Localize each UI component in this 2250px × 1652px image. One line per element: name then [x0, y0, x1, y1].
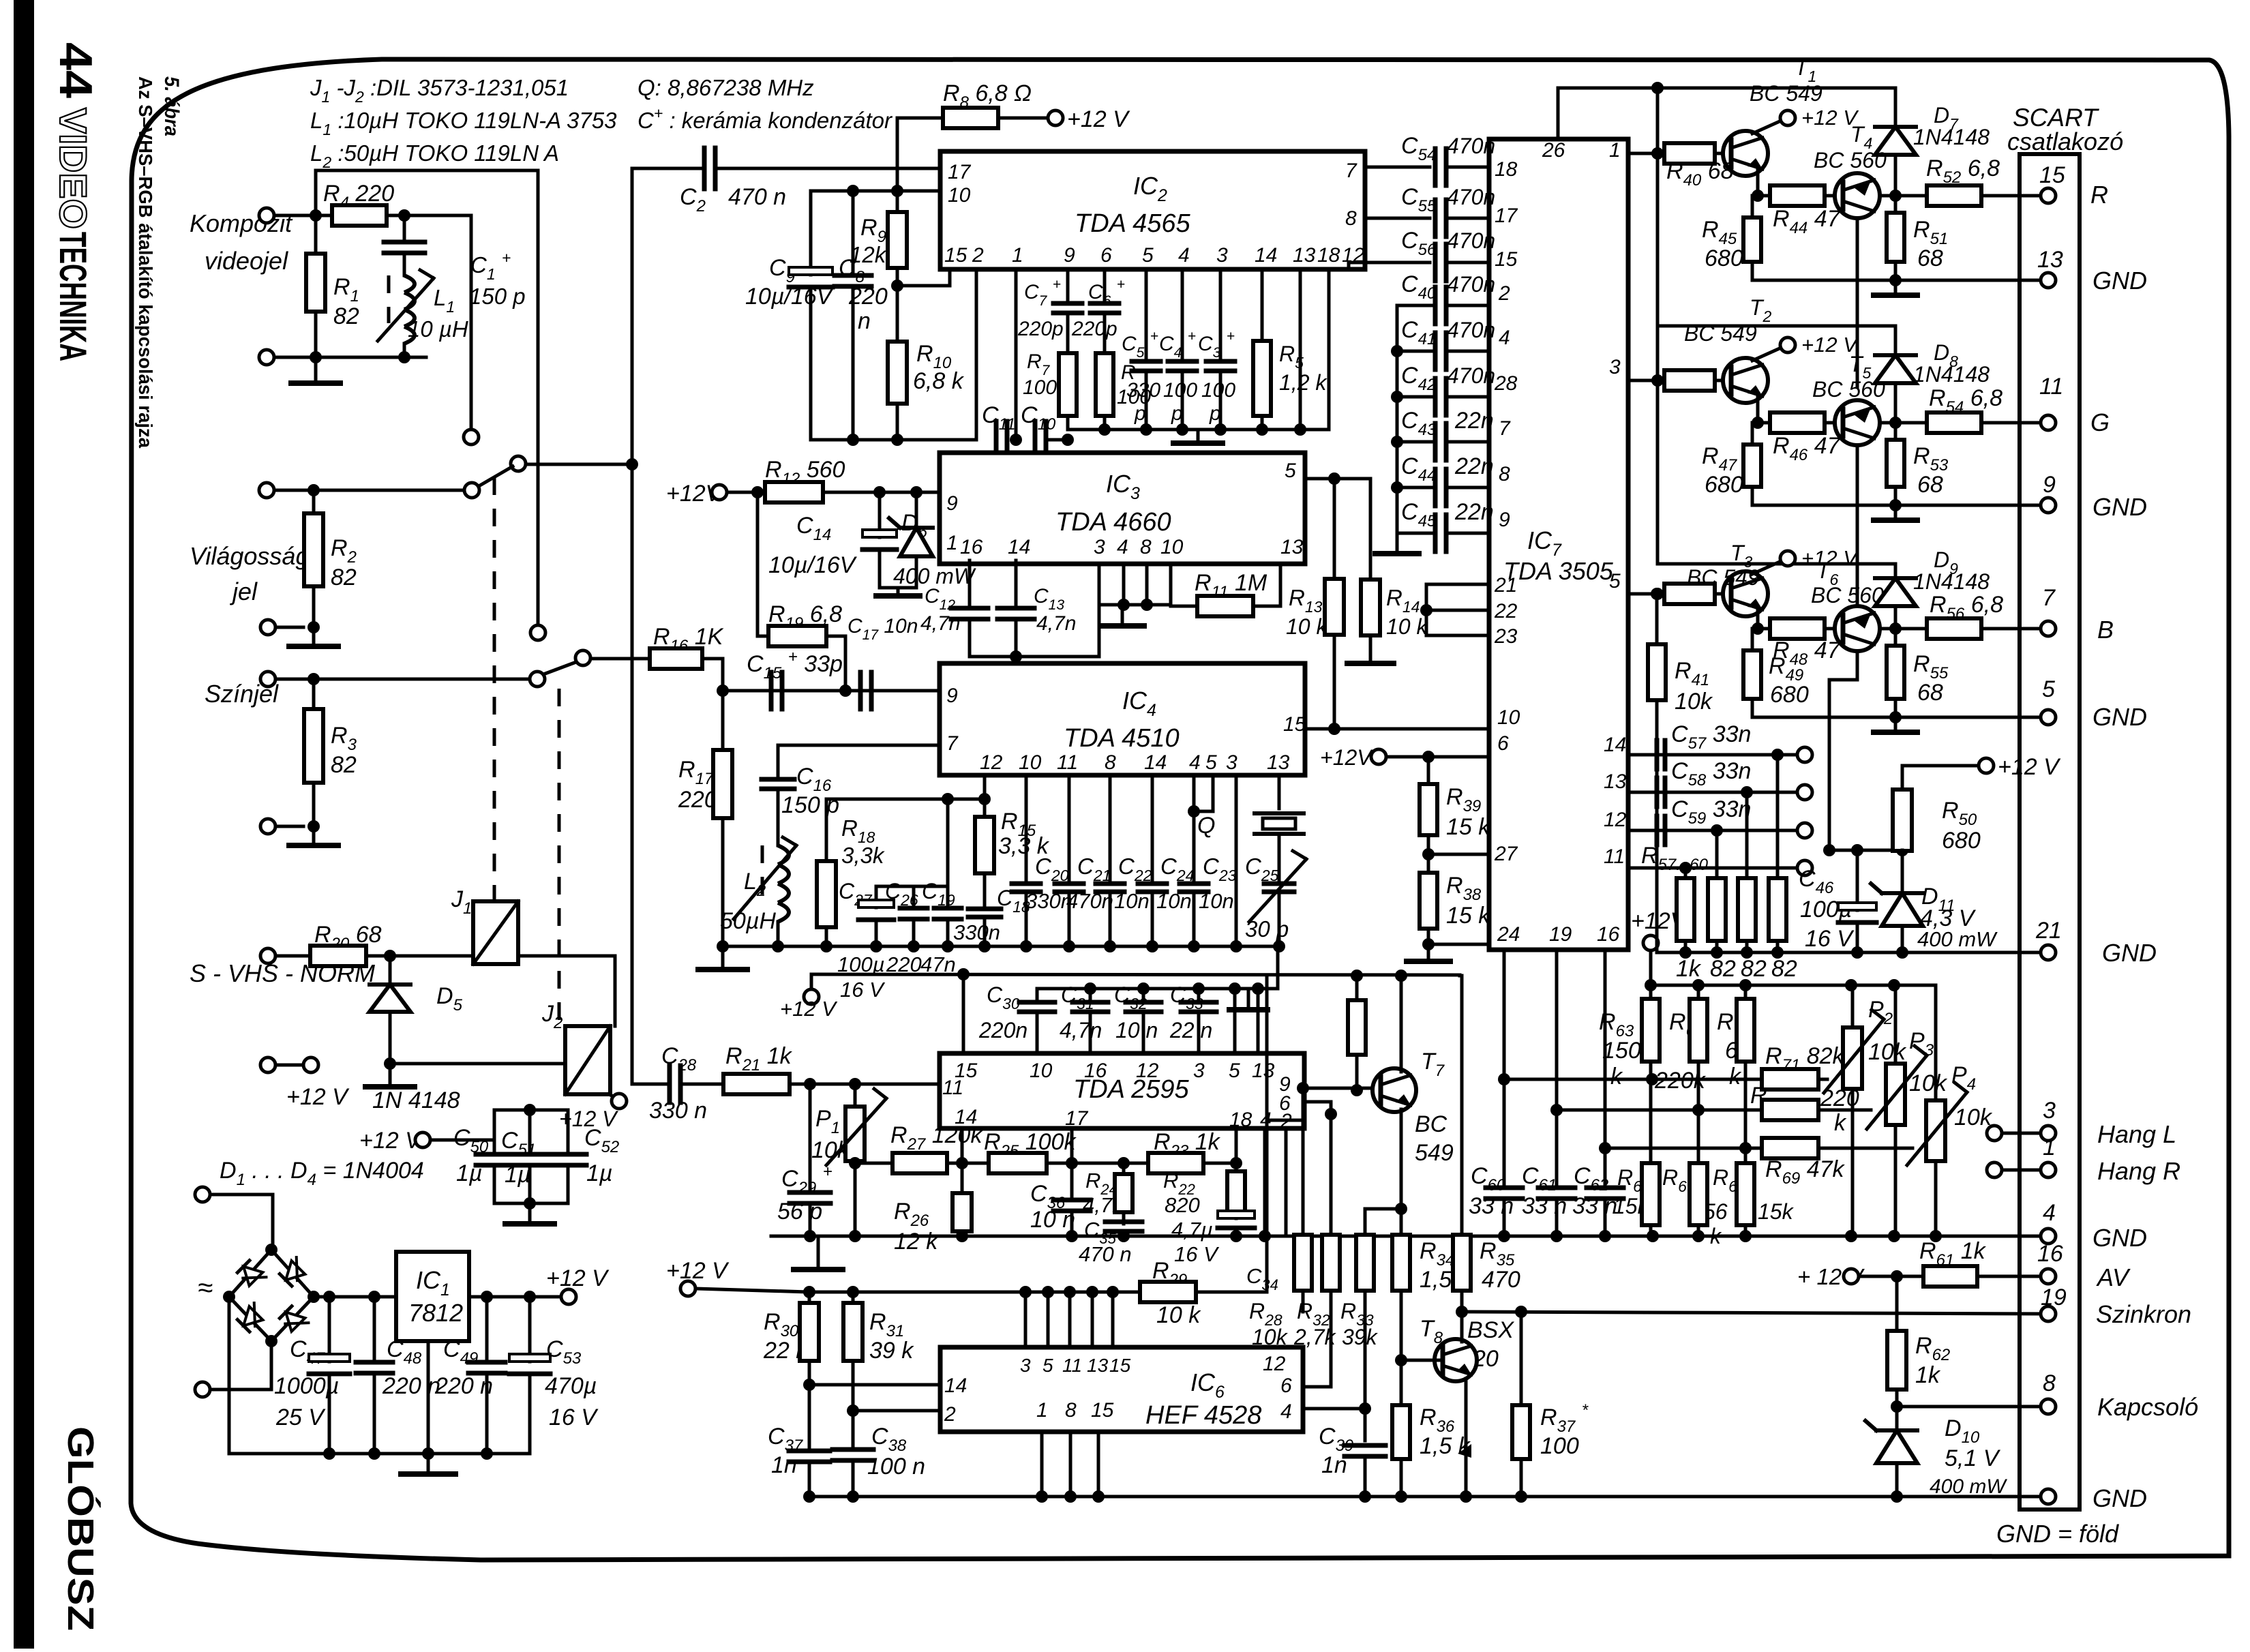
svg-text:GND = föld: GND = föld [1996, 1520, 2119, 1548]
svg-text:22 n: 22 n [1169, 1018, 1212, 1042]
resistor load 68 R55 [1894, 629, 1897, 646]
svg-text:18: 18 [1317, 244, 1340, 267]
wire switch2 to R16 [590, 657, 650, 661]
resistor 47 ohm R46 [1758, 421, 1770, 425]
wire +12V row to IC5 pin15 and T7 [811, 974, 1460, 975]
svg-text:BC 560: BC 560 [1811, 583, 1884, 607]
svg-text:28: 28 [1494, 372, 1518, 395]
svg-text:HEF 4528: HEF 4528 [1145, 1401, 1261, 1430]
wire C50 block bottom [493, 1167, 496, 1203]
wire pin4 stub [1181, 269, 1184, 357]
svg-text:150 p: 150 p [781, 792, 839, 818]
wire C10 to pin9 col [1046, 438, 1068, 442]
wire D5 to J2 [390, 1062, 565, 1066]
node R38 bottom [1422, 938, 1435, 950]
C30-C33 decoupling bus [1037, 987, 1278, 991]
svg-text:1N4148: 1N4148 [1913, 569, 1990, 594]
svg-text:1µ: 1µ [586, 1160, 613, 1186]
terminal composite in top [259, 208, 274, 223]
svg-text:9: 9 [2043, 472, 2056, 498]
svg-text:13: 13 [1280, 536, 1304, 558]
svg-text:5: 5 [1042, 1355, 1053, 1376]
svg-text:17: 17 [1065, 1107, 1089, 1130]
svg-text:100µ: 100µ [837, 952, 885, 976]
wire +12V bus [809, 1291, 1267, 1294]
svg-text:3: 3 [1216, 244, 1228, 267]
transistor T1 BC549 [1723, 131, 1768, 176]
resistor series 6.8 R56 [1895, 627, 1927, 631]
svg-text:15 k: 15 k [1446, 814, 1491, 840]
wire T8 emitter [1465, 1379, 1468, 1497]
wire pin9 stub [1066, 269, 1070, 299]
svg-text:AV: AV [2096, 1263, 2131, 1291]
svg-text:82: 82 [1741, 956, 1767, 982]
svg-text:10 n: 10 n [1115, 1018, 1158, 1042]
wire T8 base [1401, 1359, 1441, 1362]
GLOBUSZ footer [60, 1426, 101, 1631]
wire row14 [1628, 753, 1777, 757]
svg-text:12: 12 [1136, 1060, 1159, 1082]
svg-text:+12V: +12V [1320, 745, 1373, 770]
IC2 box [940, 151, 1365, 269]
svg-text:3: 3 [1020, 1355, 1031, 1376]
resistor emitter 680 R49 [1751, 629, 1754, 650]
svg-text:470 n: 470 n [1079, 1242, 1132, 1266]
svg-text:16: 16 [1597, 923, 1620, 946]
terminal +12V R8 [1048, 110, 1063, 125]
wire R19 to C15 row [844, 636, 847, 691]
svg-text:k: k [1729, 1064, 1742, 1090]
svg-text:220p: 220p [1071, 318, 1117, 340]
resistor T7 base pullup [1355, 976, 1359, 1000]
wire pin14 stub [961, 1128, 964, 1193]
svg-text:k: k [1610, 1064, 1623, 1090]
svg-text:TECHNIKA: TECHNIKA [52, 232, 95, 361]
svg-text:6: 6 [1100, 244, 1112, 267]
wire bottom [303, 356, 426, 359]
svg-text:Kompozit: Kompozit [190, 209, 293, 237]
IC5 TDA2595 box [940, 1053, 1304, 1128]
svg-text:14: 14 [944, 1375, 967, 1397]
wire sync row [1462, 1312, 2047, 1314]
wire Kapcsolo row [1897, 1405, 2041, 1409]
svg-text:1N 4148: 1N 4148 [372, 1087, 460, 1113]
switch blade 1 [475, 466, 513, 488]
svg-text:330: 330 [1126, 379, 1160, 402]
switch contact A2 [530, 625, 545, 640]
svg-text:50µH: 50µH [720, 908, 776, 934]
P network top rail [1651, 984, 1936, 987]
IC1 7812 [396, 1252, 469, 1341]
svg-text:6: 6 [1280, 1375, 1292, 1397]
wire pin24 column [1503, 950, 1506, 1186]
terminal gnd pin 13 [2041, 273, 2056, 288]
transistor T6 BC560 [1835, 606, 1880, 651]
svg-text:10µ/16V: 10µ/16V [768, 552, 858, 578]
wire gnd row stage 2 [1752, 504, 2041, 507]
svg-text:150: 150 [1602, 1038, 1641, 1064]
resistor base ? [1657, 379, 1664, 382]
svg-text:8: 8 [1140, 536, 1152, 558]
svg-text:14: 14 [1144, 751, 1167, 774]
wire R65 column [1697, 1110, 1700, 1163]
svg-text:≈: ≈ [198, 1273, 213, 1303]
svg-text:10: 10 [1160, 536, 1184, 558]
svg-text:4: 4 [1280, 1400, 1292, 1423]
IC7 pins 21 22 23 strap [1426, 583, 1489, 586]
bottom ground rail [807, 1495, 2048, 1499]
wire box edge to A2 [537, 170, 540, 625]
svg-text:680: 680 [1705, 472, 1743, 498]
node composite gnd [310, 351, 322, 363]
node R16 out [717, 685, 729, 697]
wire switch1 out to rail [526, 463, 632, 466]
svg-text:400 mW: 400 mW [1930, 1475, 2007, 1498]
wire pin5 row [1628, 592, 1664, 596]
svg-text:2: 2 [972, 244, 984, 267]
svg-text:1: 1 [1036, 1399, 1048, 1422]
terminal +12V IC5 [810, 974, 813, 989]
wire pin17 stub [1070, 1128, 1074, 1190]
svg-text:68: 68 [1917, 472, 1943, 498]
wire to P1 and pin11 [810, 1083, 940, 1086]
node output 2 [1880, 421, 1927, 425]
svg-text:100 n: 100 n [867, 1454, 925, 1480]
resistor 47 ohm R44 [1758, 194, 1770, 198]
svg-text:470n: 470n [1447, 134, 1495, 158]
svg-text:19: 19 [1549, 923, 1572, 946]
ground supply [427, 1454, 430, 1473]
svg-text:1k: 1k [1915, 1362, 1941, 1388]
svg-text:82: 82 [331, 752, 357, 778]
svg-text:15: 15 [1091, 1399, 1114, 1422]
svg-text:10: 10 [948, 184, 971, 207]
svg-text:BC 560: BC 560 [1814, 148, 1887, 172]
svg-text:100: 100 [1163, 379, 1197, 402]
wire IC2 pin12 row C56 [1349, 262, 1365, 269]
svg-text:220: 220 [886, 952, 922, 976]
svg-text:4,7n: 4,7n [1060, 1018, 1102, 1042]
svg-text:4: 4 [1178, 244, 1190, 267]
wire pin2 row [853, 1409, 940, 1413]
resistor series 6.8 R54 [1895, 421, 1927, 425]
svg-text:Q: 8,867238 MHz: Q: 8,867238 MHz [637, 75, 814, 100]
resistor base ? [1657, 592, 1664, 596]
svg-text:26: 26 [1542, 139, 1565, 162]
svg-text:4,7n: 4,7n [920, 612, 960, 635]
resistor 47 ohm R48 [1758, 627, 1770, 631]
ground R38 [1427, 944, 1430, 960]
svg-text:1: 1 [2043, 1135, 2056, 1160]
svg-text:10: 10 [1019, 751, 1042, 774]
node D5 [384, 950, 396, 962]
svg-text:820: 820 [1165, 1193, 1200, 1217]
diode D7 1N4148 [1894, 88, 1897, 127]
terminal Hang R [1987, 1162, 2002, 1177]
svg-text:27: 27 [1494, 843, 1518, 865]
svg-text:Kapcsoló: Kapcsoló [2097, 1393, 2198, 1421]
terminal AC in top [195, 1187, 210, 1202]
wire pin2 stub [975, 269, 978, 440]
svg-text:8: 8 [1345, 207, 1357, 230]
terminal row14 [1771, 749, 1784, 761]
svg-text:csatlakozó: csatlakozó [2007, 127, 2123, 155]
svg-text:VIDEO: VIDEO [52, 108, 95, 229]
wire base row stage 2 [1628, 379, 1664, 382]
wire R9 to pin15 [897, 269, 950, 286]
terminal gnd pin 9 [2041, 498, 2056, 513]
svg-text:10 k: 10 k [1286, 614, 1328, 639]
dashed link switch1 to J1 [493, 477, 496, 901]
svg-text:9: 9 [946, 685, 958, 707]
svg-text:13: 13 [1087, 1355, 1109, 1376]
switch contact A composite [464, 430, 479, 445]
svg-text:4: 4 [2043, 1200, 2056, 1226]
ground chroma input [312, 826, 316, 844]
wire R62 column [1895, 1276, 1899, 1331]
svg-text:16: 16 [960, 536, 983, 558]
svg-text:Világosság-: Világosság- [190, 542, 317, 570]
wire T1 collector to +12V [1752, 121, 1780, 134]
svg-text:10k: 10k [1909, 1070, 1948, 1096]
svg-text:15: 15 [2039, 162, 2065, 188]
wire pin5 stub [1145, 269, 1148, 357]
svg-text:13: 13 [1252, 1060, 1275, 1082]
svg-text:GND: GND [2102, 939, 2157, 967]
svg-text:549: 549 [1415, 1140, 1454, 1166]
terminal AC in bottom [195, 1382, 210, 1397]
svg-text:BC 560: BC 560 [1812, 377, 1885, 402]
svg-text:+12 V: +12 V [780, 997, 838, 1021]
svg-text:9: 9 [1064, 244, 1075, 267]
svg-text:BSX: BSX [1467, 1317, 1514, 1343]
wire IC7 top to rail [1558, 88, 1657, 139]
svg-text:12 k: 12 k [894, 1229, 939, 1255]
wire +12V rail stage 2 [1657, 325, 1895, 328]
svg-text:8: 8 [1065, 1399, 1077, 1422]
svg-text:2: 2 [1498, 282, 1510, 305]
wire rail corner to C28 [632, 1083, 665, 1086]
wire IC1 gnd [427, 1341, 430, 1454]
svg-text:11: 11 [942, 1077, 963, 1099]
wire pin6 junction [1304, 1100, 1331, 1104]
wire T3 emitter [1758, 611, 1770, 629]
row B pin19 to P3 [1557, 1109, 1698, 1112]
svg-text:22n: 22n [1454, 453, 1494, 479]
switch contact C luma [464, 483, 479, 498]
svg-text:1: 1 [946, 532, 958, 554]
wire pin6-2 vertical [1330, 1102, 1333, 1235]
resistor load 68 R51 [1894, 196, 1897, 213]
wire IC1 out [469, 1295, 561, 1299]
resistors R57-R60 bank [1684, 868, 1687, 878]
wire C27 C26 C19 top link [876, 885, 948, 888]
svg-text:15: 15 [1495, 248, 1518, 271]
terminal luma in [259, 483, 274, 498]
svg-text:330n: 330n [953, 920, 1000, 944]
svg-text:470n: 470n [1447, 185, 1495, 209]
terminal +12V out [561, 1289, 576, 1304]
svg-text:5: 5 [1229, 1060, 1240, 1082]
wire R41 bottom to rail [1655, 717, 1659, 952]
ground IC2 bus [1197, 430, 1200, 442]
wire pin1 row [1628, 152, 1664, 155]
svg-text:+12 V: +12 V [666, 1258, 730, 1284]
terminal gnd pin 5 [2041, 710, 2056, 725]
svg-text:470n: 470n [1447, 318, 1495, 342]
IC4 box [940, 663, 1305, 775]
svg-text:TDA 3505: TDA 3505 [1503, 557, 1614, 585]
wire pin2 to R29 col [1267, 1119, 1304, 1122]
svg-text:10 k: 10 k [1386, 614, 1428, 639]
svg-text:10 µH: 10 µH [408, 316, 468, 342]
wire pin1 stub [1015, 269, 1018, 440]
wire R11 to pin13 [1279, 564, 1282, 606]
svg-text:12: 12 [1604, 809, 1627, 831]
svg-text:GND: GND [2092, 1484, 2147, 1512]
svg-text:22n: 22n [1454, 408, 1494, 434]
svg-text:4: 4 [1189, 751, 1201, 774]
svg-text:16 V: 16 V [840, 978, 886, 1002]
svg-text:4: 4 [1499, 327, 1510, 349]
terminal pin 7 B [2020, 627, 2041, 631]
node C29 [804, 1078, 816, 1090]
ground C50 block [528, 1203, 532, 1222]
svg-text:470n: 470n [1447, 228, 1495, 253]
svg-text:1: 1 [1012, 244, 1023, 267]
svg-text:G: G [2090, 408, 2110, 436]
node Kapcsolo [1891, 1400, 1903, 1413]
svg-text:10 k: 10 k [1156, 1302, 1201, 1328]
wire bridge plus to IC1 [314, 1295, 396, 1299]
svg-text:7812: 7812 [408, 1299, 463, 1327]
svg-text:+12 V: +12 V [286, 1084, 350, 1110]
wire pin9 to T7 base [1304, 1087, 1379, 1090]
svg-text:23: 23 [1494, 625, 1518, 648]
wire T8 collector [1460, 1312, 1464, 1342]
resistor load 68 R53 [1894, 423, 1897, 440]
svg-text:14: 14 [1604, 734, 1626, 756]
wire C12 C13 bottoms [970, 605, 1099, 657]
svg-text:k: k [1834, 1110, 1847, 1136]
svg-text:13: 13 [1293, 244, 1316, 267]
svg-text:Q: Q [1197, 813, 1215, 839]
svg-text:15k: 15k [1758, 1199, 1795, 1224]
wire rail down [1656, 88, 1660, 564]
svg-text:470n: 470n [1447, 363, 1495, 388]
svg-text:3: 3 [1226, 751, 1237, 774]
wire pin13 stub [1299, 269, 1302, 430]
ground D5 [389, 1064, 392, 1085]
wire pin2 stub [1285, 1128, 1288, 1236]
wire pins 4 5 to C23 [1192, 777, 1196, 880]
ground C33 bus [1247, 989, 1250, 1008]
svg-text:1k: 1k [1676, 956, 1702, 982]
svg-text:BC 549: BC 549 [1684, 321, 1757, 346]
svg-text:16 V: 16 V [1805, 926, 1855, 952]
svg-text:15 k: 15 k [1446, 903, 1491, 929]
wire T2 emitter [1758, 397, 1770, 423]
svg-text:100: 100 [1023, 376, 1057, 399]
svg-text:1: 1 [1609, 139, 1621, 162]
svg-text:+12 V: +12 V [359, 1128, 423, 1154]
wire T1 emitter [1758, 170, 1770, 196]
svg-text:videojel: videojel [205, 247, 288, 275]
ground bus under IC4 [719, 945, 1279, 948]
wire T7 collector [1400, 976, 1403, 1072]
svg-text:18: 18 [1229, 1109, 1252, 1131]
svg-text:16: 16 [2037, 1241, 2063, 1267]
svg-text:BC 549: BC 549 [1687, 565, 1760, 590]
svg-text:14: 14 [1008, 536, 1030, 558]
node chroma gnd [307, 820, 320, 832]
svg-text:150 p: 150 p [469, 284, 526, 309]
wire R18 C19 to pin12 node [826, 798, 985, 801]
wire IC6 pin4 row [1303, 1407, 1365, 1411]
wire R38 to IC7 [1428, 943, 1489, 946]
svg-text:5: 5 [2042, 676, 2055, 702]
wire row P1-R27-R25-R23 [962, 1162, 1124, 1165]
wire IC3 pin5 row to R13 R14 [1305, 477, 1370, 481]
svg-text:2: 2 [944, 1403, 956, 1426]
row C pin16 to P4 [1605, 1147, 1745, 1150]
wire IC4 pin15 to IC7 pin10 [1305, 727, 1489, 731]
node D5 bottom [384, 1057, 396, 1070]
svg-text:21: 21 [2035, 918, 2062, 944]
svg-text:12: 12 [980, 751, 1003, 774]
GND rail pin21 [1657, 951, 2041, 955]
svg-text:17: 17 [948, 161, 972, 183]
svg-text:3,3k: 3,3k [841, 843, 885, 868]
svg-text:BC 549: BC 549 [1750, 81, 1822, 106]
svg-text:C+ : kerámia kondenzátor: C+ : kerámia kondenzátor [637, 104, 893, 133]
switch contact B common [511, 456, 526, 471]
node composite in [310, 209, 322, 222]
svg-text:7: 7 [2042, 585, 2056, 611]
wire T3 collector to +12V [1752, 562, 1780, 574]
node chroma [307, 673, 320, 685]
svg-text:22n: 22n [1454, 499, 1494, 525]
svg-text:400 mW: 400 mW [1917, 927, 1998, 951]
svg-text:B: B [2097, 616, 2114, 644]
terminal +12V pair [260, 1057, 275, 1072]
svg-text:Hang L: Hang L [2097, 1120, 2176, 1148]
ground composite input [314, 357, 318, 382]
svg-text:jel: jel [229, 577, 258, 605]
transistor T4 BC560 [1835, 173, 1880, 218]
wire pin3 row [1628, 379, 1664, 382]
wire R19 feed [756, 492, 760, 636]
wire R29 riser [1265, 1120, 1269, 1292]
wire IC2 pin8 row C55 [1365, 217, 1430, 220]
svg-text:TDA 4660: TDA 4660 [1055, 508, 1171, 537]
svg-text:Hang R: Hang R [2097, 1157, 2180, 1185]
node output 3 [1880, 627, 1927, 631]
IC6 bottom pin stubs [1040, 1432, 1044, 1497]
terminal pin19 Szinkron [2041, 1306, 2056, 1321]
svg-text:82: 82 [331, 565, 357, 590]
svg-text:680: 680 [1942, 828, 1981, 854]
svg-text:9: 9 [1499, 509, 1510, 531]
IC2 bottom bus [1068, 428, 1329, 432]
switch contact C2 [530, 672, 545, 687]
ground stage 1 [1894, 280, 1897, 294]
svg-text:1N4148: 1N4148 [1913, 125, 1990, 149]
wire R28 bottom [1302, 1291, 1305, 1312]
svg-text:15: 15 [944, 244, 967, 267]
node pin14 col [956, 1157, 968, 1169]
diode D9 1N4148 [1894, 564, 1897, 578]
